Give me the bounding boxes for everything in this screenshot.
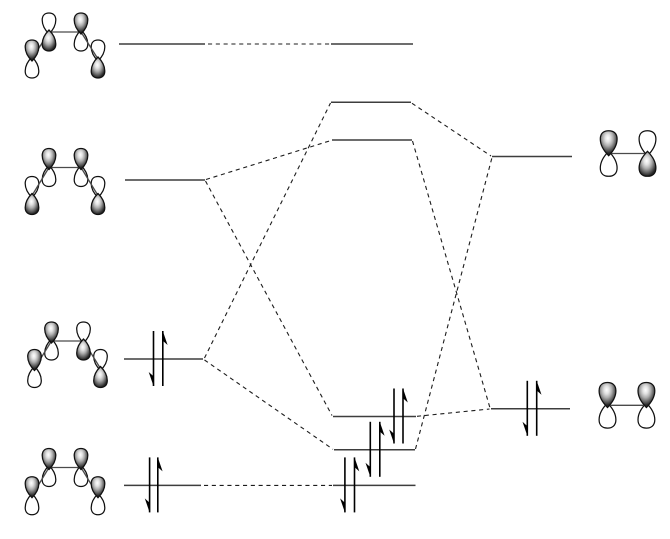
energy level psi3 (butadiene) <box>125 179 205 181</box>
correlation line product pi to ethylene pi <box>417 409 490 416</box>
electron pair on ethylene pi <box>523 381 542 436</box>
energy level pi (ethylene) <box>491 408 570 410</box>
correlation line sigma2 to ethylene pi* <box>416 158 493 450</box>
correlation line psi3 to product pi* <box>206 141 331 180</box>
energy level pi* (product) <box>332 139 412 141</box>
energy level sigma2* (product) <box>331 43 413 45</box>
correlation line psi4 to sigma2* <box>208 43 330 45</box>
energy level pi (product) <box>333 416 416 418</box>
orbital drawing pi (ethylene) <box>599 383 655 429</box>
electron pair on psi1 <box>145 457 163 512</box>
energy level sigma1 (product) <box>333 484 416 486</box>
energy level pi* (ethylene) <box>492 156 572 158</box>
electron pair on psi2 <box>149 331 168 386</box>
electron pair on sigma2 <box>366 422 385 477</box>
orbital drawing psi1 (butadiene) <box>25 449 105 515</box>
energy level psi1 (butadiene) <box>124 484 201 486</box>
energy level psi4 (butadiene) <box>119 43 205 45</box>
correlation line product pi* to ethylene pi <box>413 141 491 408</box>
energy level psi2 (butadiene) <box>124 358 203 360</box>
correlation line sigma1* to ethylene pi* <box>412 103 491 156</box>
orbital drawing psi3 (butadiene) <box>25 149 105 215</box>
correlation line psi2 to sigma2 <box>205 360 334 449</box>
orbital drawing psi4 (butadiene) <box>25 13 105 78</box>
energy level sigma2 (product) <box>334 449 415 451</box>
electron pair on sigma1 <box>340 457 359 512</box>
electron pair on product pi <box>389 389 408 444</box>
orbital drawing psi2 (butadiene) <box>28 322 108 388</box>
correlation line psi2 to sigma1* <box>205 103 331 358</box>
energy level sigma1* (product) <box>331 101 411 103</box>
correlation line psi3 to product pi <box>206 181 333 416</box>
orbital drawing pi-star (ethylene) <box>600 131 656 177</box>
correlation line psi1 to sigma1 <box>204 484 332 486</box>
